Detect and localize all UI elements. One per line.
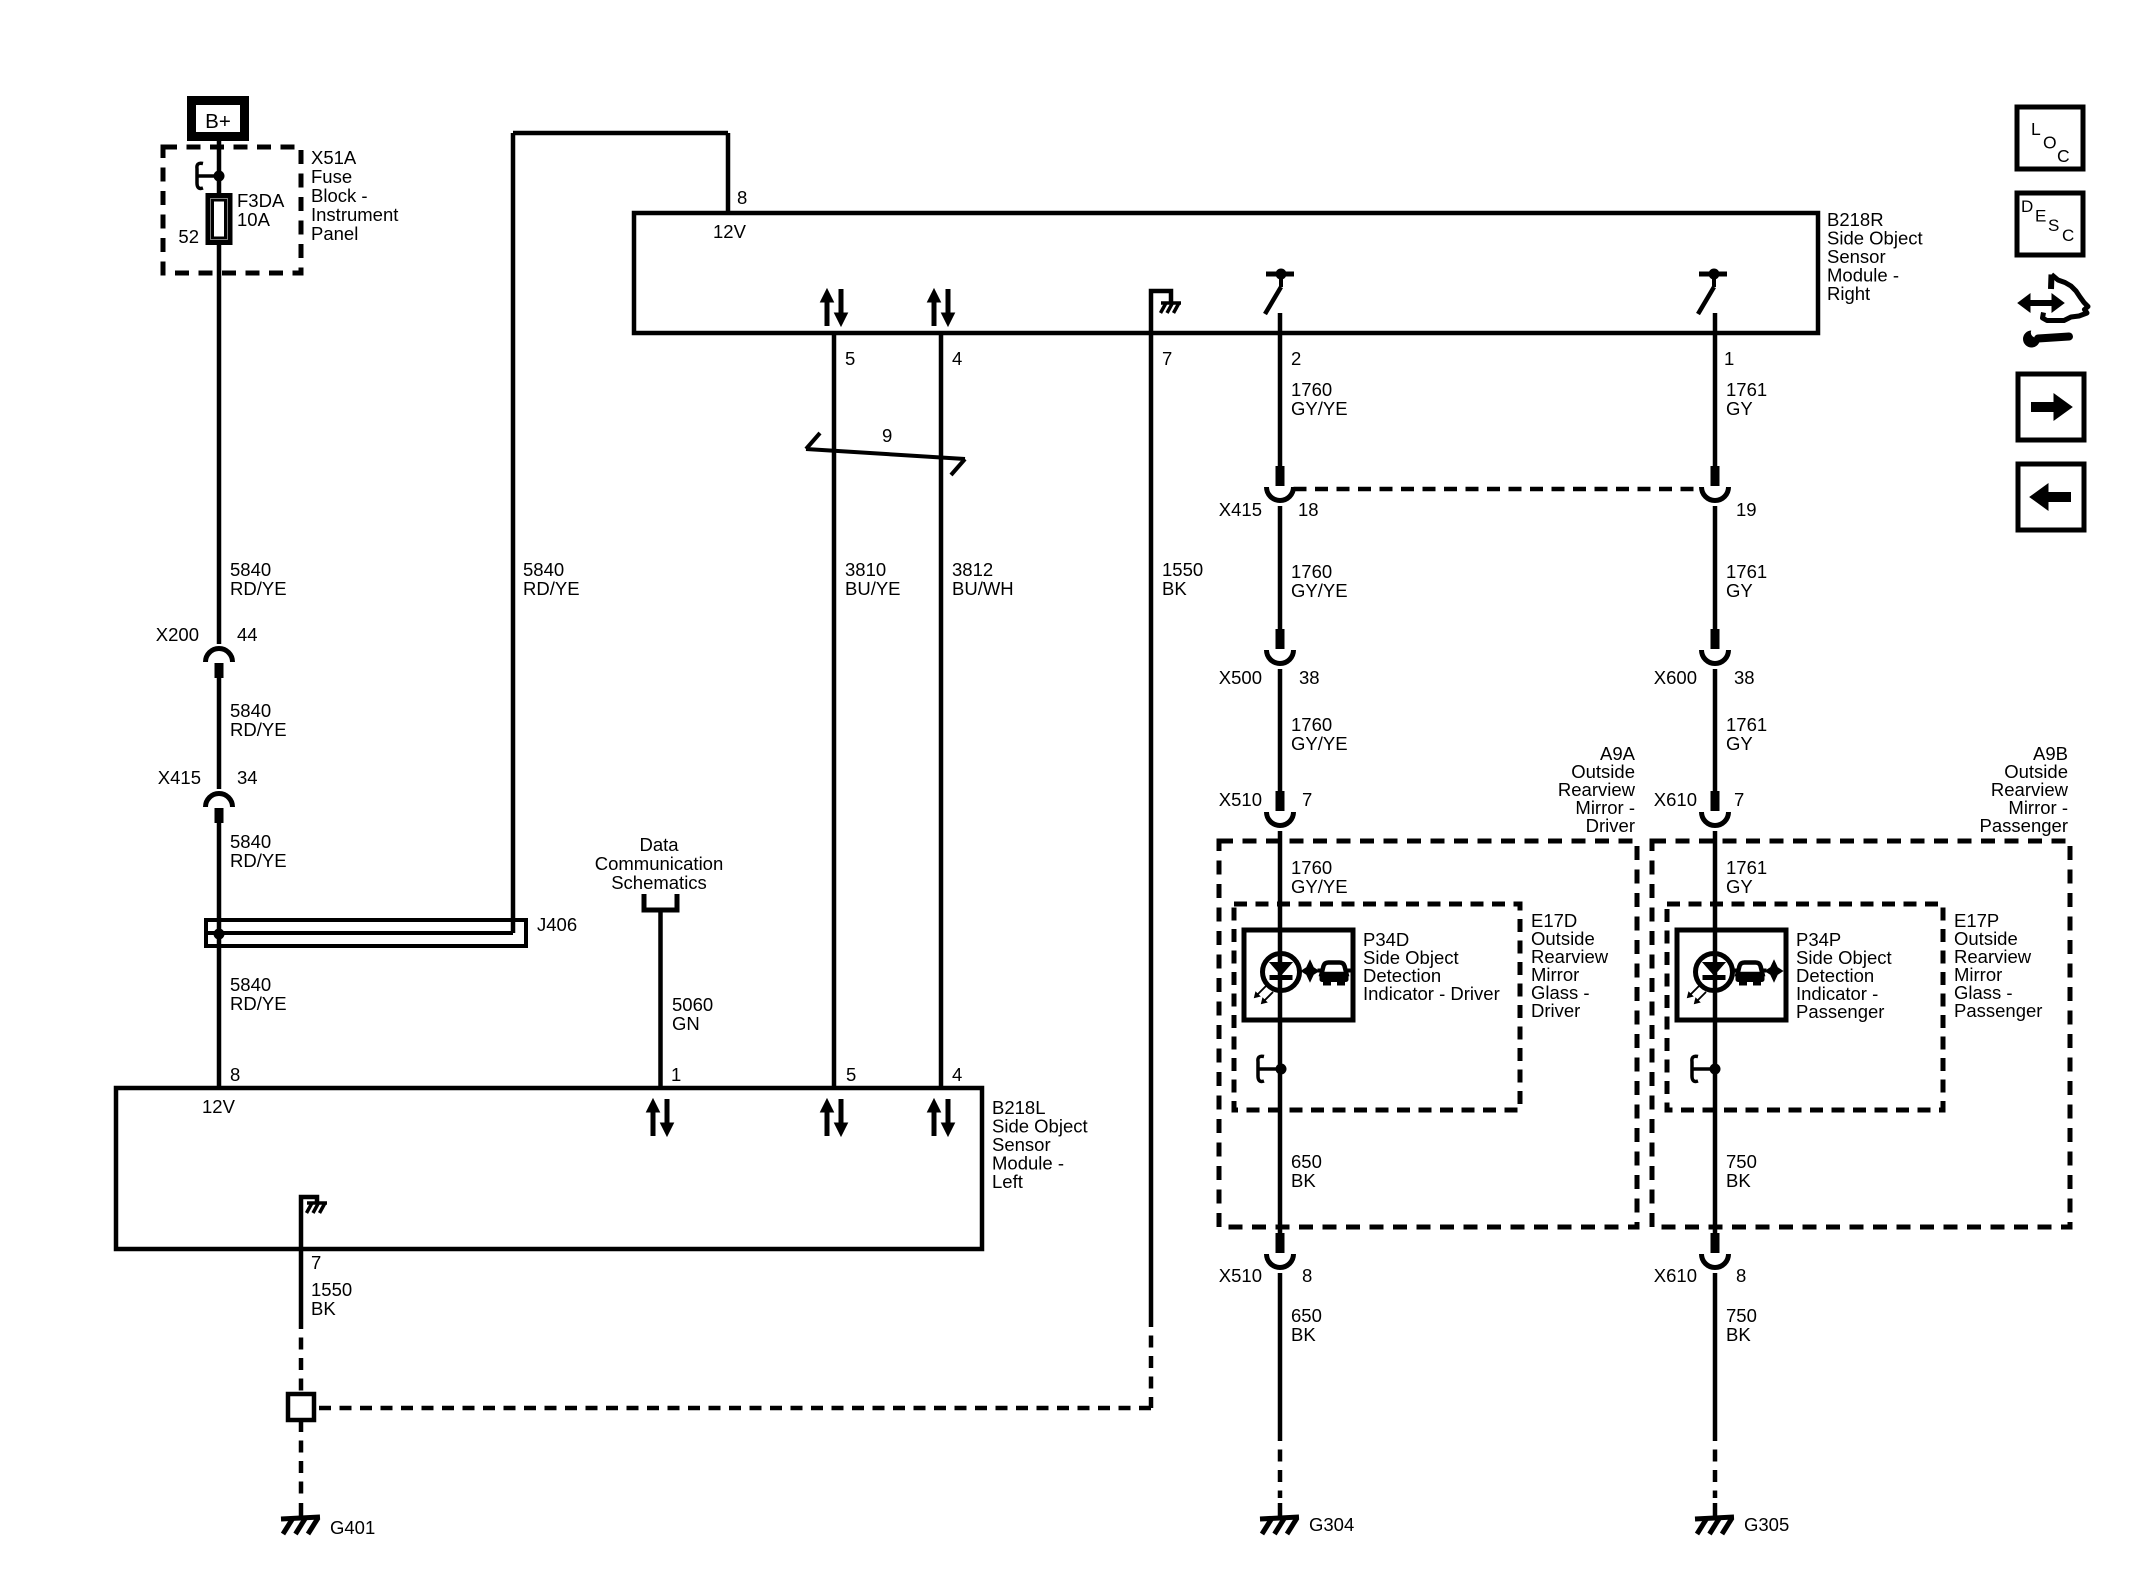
svg-text:RD/YE: RD/YE [230,993,287,1014]
svg-text:44: 44 [237,624,258,645]
svg-text:1761: 1761 [1726,379,1767,400]
svg-text:BK: BK [311,1298,336,1319]
svg-text:X500: X500 [1219,667,1262,688]
svg-text:1: 1 [671,1064,681,1085]
svg-text:X415: X415 [1219,499,1262,520]
svg-text:X510: X510 [1219,1265,1262,1286]
svg-text:Driver: Driver [1586,815,1635,836]
svg-text:X610: X610 [1654,789,1697,810]
svg-text:L: L [2031,119,2041,139]
svg-text:B+: B+ [205,110,231,133]
svg-text:1: 1 [1724,348,1734,369]
svg-text:650: 650 [1291,1305,1322,1326]
svg-text:1761: 1761 [1726,561,1767,582]
svg-text:C: C [2057,146,2070,166]
svg-text:5840: 5840 [523,559,564,580]
svg-text:D: D [2021,197,2033,216]
svg-text:34: 34 [237,767,258,788]
svg-text:GY/YE: GY/YE [1291,733,1348,754]
svg-text:5: 5 [846,1064,856,1085]
svg-text:8: 8 [230,1064,240,1085]
svg-text:7: 7 [1162,348,1172,369]
svg-text:GY: GY [1726,733,1753,754]
svg-text:Communication: Communication [595,853,724,874]
svg-text:BK: BK [1291,1170,1316,1191]
svg-text:5840: 5840 [230,831,271,852]
svg-text:1761: 1761 [1726,714,1767,735]
svg-text:X610: X610 [1654,1265,1697,1286]
svg-text:8: 8 [1736,1265,1746,1286]
svg-text:GY: GY [1726,398,1753,419]
svg-text:Passenger: Passenger [1980,815,2068,836]
svg-text:Fuse: Fuse [311,166,352,187]
svg-text:O: O [2043,133,2057,153]
svg-text:BK: BK [1726,1324,1751,1345]
svg-text:F3DA: F3DA [237,190,285,211]
svg-text:BU/YE: BU/YE [845,578,901,599]
svg-text:G304: G304 [1309,1514,1354,1535]
svg-text:5840: 5840 [230,700,271,721]
svg-text:J406: J406 [537,914,577,935]
svg-text:GY/YE: GY/YE [1291,398,1348,419]
svg-text:7: 7 [1302,789,1312,810]
svg-text:X200: X200 [156,624,199,645]
svg-text:Schematics: Schematics [611,872,707,893]
svg-text:19: 19 [1736,499,1757,520]
svg-text:X600: X600 [1654,667,1697,688]
svg-text:38: 38 [1734,667,1755,688]
svg-text:Left: Left [992,1171,1023,1192]
svg-text:Right: Right [1827,283,1870,304]
svg-text:18: 18 [1298,499,1319,520]
svg-text:4: 4 [952,1064,962,1085]
svg-text:750: 750 [1726,1305,1757,1326]
svg-text:3810: 3810 [845,559,886,580]
svg-text:1550: 1550 [1162,559,1203,580]
svg-text:7: 7 [1734,789,1744,810]
svg-text:4: 4 [952,348,962,369]
svg-text:X51A: X51A [311,147,357,168]
svg-text:1550: 1550 [311,1279,352,1300]
svg-text:GY/YE: GY/YE [1291,876,1348,897]
svg-text:GY: GY [1726,876,1753,897]
svg-text:Data: Data [639,834,679,855]
svg-text:1761: 1761 [1726,857,1767,878]
svg-text:38: 38 [1299,667,1320,688]
svg-text:1760: 1760 [1291,561,1332,582]
svg-text:X415: X415 [158,767,201,788]
svg-text:9: 9 [882,425,892,446]
svg-text:BU/WH: BU/WH [952,578,1014,599]
svg-text:7: 7 [311,1252,321,1273]
svg-text:5840: 5840 [230,559,271,580]
svg-text:1760: 1760 [1291,857,1332,878]
svg-text:GN: GN [672,1013,700,1034]
svg-text:8: 8 [1302,1265,1312,1286]
svg-text:Panel: Panel [311,223,358,244]
svg-text:52: 52 [178,226,199,247]
svg-text:BK: BK [1162,578,1187,599]
svg-text:RD/YE: RD/YE [230,578,287,599]
svg-text:Block -: Block - [311,185,368,206]
svg-text:E: E [2035,207,2046,226]
svg-text:12V: 12V [713,221,747,242]
svg-text:3812: 3812 [952,559,993,580]
svg-text:GY/YE: GY/YE [1291,580,1348,601]
svg-text:X510: X510 [1219,789,1262,810]
svg-text:5060: 5060 [672,994,713,1015]
svg-text:8: 8 [737,187,747,208]
svg-text:5: 5 [845,348,855,369]
svg-text:2: 2 [1291,348,1301,369]
svg-text:Instrument: Instrument [311,204,398,225]
svg-text:S: S [2048,216,2059,235]
svg-text:10A: 10A [237,209,271,230]
svg-text:G305: G305 [1744,1514,1789,1535]
svg-text:Passenger: Passenger [1796,1001,1884,1022]
svg-text:650: 650 [1291,1151,1322,1172]
svg-text:1760: 1760 [1291,379,1332,400]
svg-text:1760: 1760 [1291,714,1332,735]
svg-text:Passenger: Passenger [1954,1000,2042,1021]
svg-text:BK: BK [1726,1170,1751,1191]
svg-text:BK: BK [1291,1324,1316,1345]
svg-text:5840: 5840 [230,974,271,995]
svg-text:750: 750 [1726,1151,1757,1172]
svg-text:C: C [2062,226,2074,245]
svg-text:RD/YE: RD/YE [230,850,287,871]
svg-text:Driver: Driver [1531,1000,1580,1021]
svg-text:Indicator - Driver: Indicator - Driver [1363,983,1500,1004]
svg-text:RD/YE: RD/YE [523,578,580,599]
svg-text:12V: 12V [202,1096,236,1117]
svg-text:GY: GY [1726,580,1753,601]
svg-text:G401: G401 [330,1517,375,1538]
svg-text:RD/YE: RD/YE [230,719,287,740]
